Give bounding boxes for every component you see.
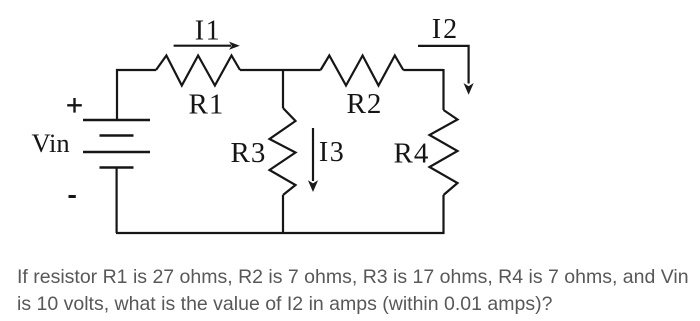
resistor R1 [156,56,240,86]
svg-text:R2: R2 [347,88,383,120]
battery Vin plate short bottom [100,166,134,169]
svg-text:I3: I3 [319,137,345,168]
svg-text:R1: R1 [189,89,225,121]
svg-text:R3: R3 [231,137,267,169]
wire bottom horizontal [116,232,445,234]
battery Vin plate long top [83,119,150,122]
current arrow I3 line [312,128,314,181]
svg-text:Vin: Vin [32,128,70,158]
svg-text:I2: I2 [432,14,459,45]
wire left vertical top (battery + to top-left corner) [116,69,118,120]
wire R3 to bottom [282,195,284,233]
label + polarity [67,98,82,113]
current arrow I2 head [464,83,474,95]
current arrow I2 line [418,46,469,84]
resistor R3 [270,108,296,195]
question text [17,264,697,319]
wire right vertical to R4 [442,69,444,110]
current arrow I3 head [308,180,318,192]
battery Vin plate long lower [83,151,150,154]
label - polarity [69,195,76,198]
resistor R2 [321,56,404,86]
node junction R3 top [282,70,284,108]
wire R1 to R2 [240,69,321,71]
current arrow I1 line [174,45,231,47]
wire top-left horizontal [116,69,156,71]
battery Vin plate short upper [100,134,134,137]
svg-text:I1: I1 [195,15,221,46]
svg-text:R4: R4 [394,138,430,170]
wire R2 to right corner [403,69,443,71]
wire R4 to bottom [442,195,444,234]
resistor R4 [430,110,458,195]
wire left vertical bottom (battery - to bottom wire) [115,168,117,234]
current arrow I1 head [229,42,240,50]
